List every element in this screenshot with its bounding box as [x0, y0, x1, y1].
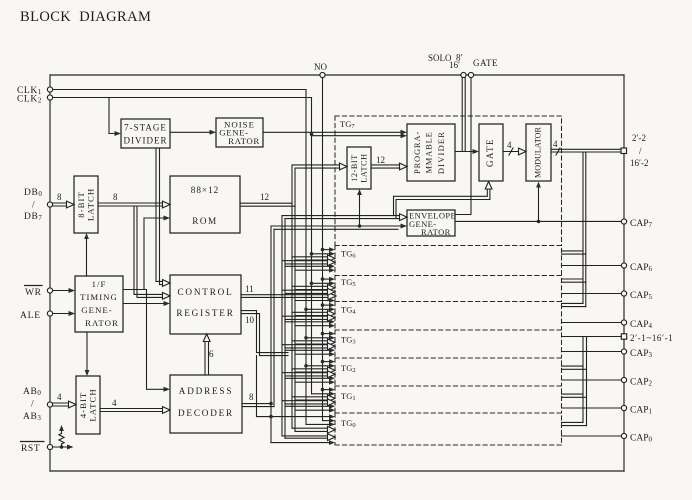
- wire TG6 select feed arrow: [285, 265, 330, 267]
- wire 8-bit latch bus branch down to control register: [134, 206, 163, 297]
- TG3 dashed box: [335, 330, 562, 358]
- node CAP3 terminal: [621, 349, 626, 354]
- svg-text:/: /: [31, 400, 34, 410]
- node CAP4 terminal: [621, 320, 626, 325]
- node 2'-2/16'-2 output terminal: [621, 148, 627, 154]
- wire TG6 output bus: [562, 251, 586, 254]
- wire TG4 data bus arrow: [282, 316, 329, 319]
- svg-text:WR: WR: [25, 288, 42, 298]
- wire 8-bit latch to ROM: [98, 203, 162, 206]
- svg-text:MODULATOR: MODULATOR: [534, 126, 543, 178]
- svg-text:TIMING: TIMING: [80, 292, 118, 302]
- node CAP7 terminal: [621, 219, 626, 224]
- node NO terminal: [320, 72, 325, 77]
- svg-text:88×12: 88×12: [191, 185, 220, 195]
- svg-text:GATE: GATE: [485, 138, 495, 167]
- wire ROM 12 bus out: [240, 203, 295, 206]
- 12-bit latch U-TG7: [347, 147, 371, 189]
- wire CAP6 line: [562, 265, 622, 267]
- svg-text:8-BIT: 8-BIT: [76, 191, 86, 218]
- wire TG5 12 bus arrow: [292, 286, 329, 289]
- wire TG6 12 bus arrow: [292, 257, 329, 260]
- wire TG0 data bus arrow: [282, 436, 329, 438]
- TG1 dashed box: [335, 386, 562, 413]
- wire gate to modulator 4: [503, 151, 519, 153]
- wire TG0 12 bus arrow: [292, 428, 329, 431]
- svg-text:6: 6: [209, 349, 214, 359]
- 8-bit latch block: [74, 176, 98, 233]
- wire TG2 select feed arrow: [285, 377, 330, 379]
- wire envelope input line 1 pair: [282, 216, 285, 439]
- wire TG2 noise feed arrow: [323, 361, 330, 363]
- svg-text:RATOR: RATOR: [85, 318, 119, 328]
- node AB0/AB3 terminal: [47, 402, 52, 407]
- svg-text:NO: NO: [314, 62, 327, 72]
- wire envelope input line 2: [271, 226, 401, 229]
- wire noise output to TG7 divider: [263, 131, 402, 133]
- node SOLO 8'/16' terminal: [461, 72, 466, 77]
- svg-text:CAP4: CAP4: [630, 320, 652, 330]
- svg-text:10: 10: [245, 315, 255, 325]
- svg-text:11: 11: [245, 284, 254, 294]
- wire timing gen to ROM and decoder feed line: [123, 218, 165, 389]
- wire 2'-1 group vertical bus: [583, 337, 587, 426]
- svg-text:12: 12: [260, 192, 269, 202]
- wire ROM bus branch up to 12-bit latch: [292, 165, 341, 206]
- wire TG0 control feed arrow: [271, 442, 330, 444]
- wire TG0 output bus: [562, 422, 587, 425]
- svg-text:8: 8: [249, 392, 254, 402]
- svg-text:4: 4: [507, 140, 512, 150]
- svg-text:AB0: AB0: [23, 387, 42, 397]
- wire address decoder 6 bus up to control register: [205, 340, 209, 375]
- svg-text:BLOCK DIAGRAM: BLOCK DIAGRAM: [20, 9, 151, 25]
- wire CAP0 line: [562, 435, 622, 437]
- wire TG2 data bus arrow: [282, 373, 329, 376]
- wire timing gen up to 8-bit latch: [86, 238, 88, 276]
- wire programmable divider to gate: [455, 151, 473, 153]
- svg-text:AB3: AB3: [23, 412, 42, 422]
- wire TG3 noise feed arrow: [323, 333, 330, 335]
- wire address decoder 8 bus out: [242, 404, 274, 407]
- wire 16'-2 group vertical bus: [583, 152, 586, 307]
- TG5 dashed box: [335, 276, 562, 302]
- wire SOLO pair down: [462, 78, 465, 152]
- wire bottom rail: [50, 470, 624, 472]
- node DB0/DB7 terminal: [47, 202, 52, 207]
- svg-text:GATE: GATE: [473, 58, 498, 68]
- svg-text:16′-2: 16′-2: [630, 158, 648, 168]
- wire divider to noise generator: [170, 131, 211, 133]
- modulator block U-TG7: [526, 124, 551, 181]
- svg-text:RATOR: RATOR: [421, 227, 451, 237]
- svg-text:2′-2: 2′-2: [632, 133, 646, 143]
- wire CAP5 line: [562, 293, 622, 295]
- wire CLK2 to TG7 divider: [312, 135, 403, 137]
- wire 12-bit latch to programmable divider: [371, 165, 401, 168]
- wire GATE pin down to envelope: [455, 78, 471, 215]
- wire envelope branch up to gate bottom: [394, 190, 490, 219]
- wire fan vertical A1: [270, 226, 272, 443]
- wire CLK1 run: [53, 90, 306, 425]
- svg-text:12-BIT: 12-BIT: [350, 154, 359, 182]
- programmable divider U-TG7: [407, 124, 455, 181]
- wire 10 bus branch down to TG0: [256, 356, 258, 417]
- 1/F timing generator block: [75, 276, 123, 332]
- svg-text:CAP2: CAP2: [630, 378, 652, 388]
- wire left rail: [49, 75, 51, 471]
- wire TG6 noise feed arrow: [323, 249, 330, 251]
- svg-text:DIVIDER: DIVIDER: [436, 131, 446, 174]
- wire TG5 output bus: [562, 279, 586, 282]
- svg-text:DECODER: DECODER: [178, 408, 234, 418]
- noise generator block: [216, 118, 263, 147]
- wire TG3 clock feed arrow: [306, 337, 330, 339]
- wire TG6 clock feed arrow: [312, 253, 330, 255]
- node GATE terminal: [468, 72, 473, 77]
- wire TG3 select feed arrow: [285, 349, 330, 351]
- svg-text:4: 4: [57, 392, 62, 402]
- gate block U-TG7: [479, 124, 503, 181]
- wire CLK2 run: [53, 98, 312, 394]
- ROM 88x12 block: [170, 176, 240, 233]
- wire TG4 clock feed arrow: [306, 308, 330, 310]
- wire timing gen to control register: [123, 303, 165, 305]
- wire TG4 noise feed arrow: [323, 304, 330, 306]
- envelope generator U-TG7: [407, 210, 455, 236]
- wire CAP2 line: [562, 379, 622, 381]
- wire WR input: [53, 290, 70, 292]
- wire TG6 control feed arrow: [295, 269, 330, 271]
- svg-text:RST: RST: [21, 444, 40, 454]
- wire TG1 control feed arrow: [295, 409, 330, 411]
- svg-text:RATOR: RATOR: [228, 136, 260, 146]
- svg-text:CAP6: CAP6: [630, 263, 652, 273]
- node CAP2 terminal: [621, 377, 626, 382]
- node CLK2 terminal: [47, 95, 52, 100]
- node CLK1 terminal: [47, 87, 52, 92]
- wire CAP4 line: [562, 322, 622, 324]
- wire TG0 clock feed arrow: [306, 423, 330, 425]
- wire TG1 select feed arrow: [285, 405, 330, 407]
- wire control register 10 bus: [241, 311, 288, 356]
- 4-bit latch block: [76, 376, 100, 434]
- svg-text:GENE-: GENE-: [81, 305, 112, 315]
- wire TG2 12 bus arrow: [292, 369, 329, 372]
- svg-text:8: 8: [57, 192, 62, 202]
- wire TG3 control feed arrow: [295, 353, 330, 355]
- wire TG2 output bus: [562, 366, 587, 369]
- wire TG1 12 bus arrow: [292, 397, 329, 400]
- wire timing gen down to 4-bit latch: [86, 332, 88, 371]
- wire TG4 output bus: [562, 303, 586, 306]
- node WR terminal: [47, 288, 52, 293]
- svg-text:MMABLE: MMABLE: [424, 131, 434, 173]
- wire TG1 noise feed arrow: [323, 389, 330, 391]
- svg-text:DIVIDER: DIVIDER: [124, 136, 168, 146]
- svg-text:CAP0: CAP0: [630, 434, 652, 444]
- svg-text:ALE: ALE: [20, 311, 41, 321]
- svg-text:ADDRESS: ADDRESS: [179, 386, 233, 396]
- wire ALE input: [53, 313, 70, 315]
- svg-text:2′-1~16′-1: 2′-1~16′-1: [630, 333, 673, 343]
- node CAP5 terminal: [621, 291, 626, 296]
- wire CAP1 line: [562, 407, 622, 409]
- wire TG4 control feed arrow: [295, 325, 330, 327]
- wire TG3 data bus arrow: [282, 345, 329, 348]
- svg-text:CAP7: CAP7: [630, 219, 652, 229]
- wire TG6 data bus arrow: [282, 261, 329, 264]
- 7-stage divider block: [121, 119, 170, 148]
- TG2 dashed box: [335, 358, 562, 386]
- svg-text:REGISTER: REGISTER: [176, 308, 234, 318]
- svg-text:DB0: DB0: [24, 188, 43, 198]
- wire TG2 control feed arrow: [295, 381, 330, 383]
- node CAP0 terminal: [621, 433, 626, 438]
- wire TG5 data bus arrow: [282, 290, 329, 293]
- wire TG5 control feed arrow: [295, 300, 330, 302]
- wire TG4 12 bus arrow: [292, 312, 329, 315]
- wire top rail: [50, 74, 624, 76]
- wire AB bus into 4-bit latch: [53, 403, 69, 406]
- svg-text:4: 4: [553, 139, 558, 149]
- wire envelope output to modulator and CAP7: [455, 220, 621, 222]
- svg-text:DB7: DB7: [24, 212, 43, 222]
- svg-text:PROGRA-: PROGRA-: [412, 131, 422, 174]
- svg-text:8: 8: [113, 192, 118, 202]
- svg-text:CLK2: CLK2: [17, 95, 42, 105]
- node RST terminal: [47, 444, 52, 449]
- svg-text:1/F: 1/F: [92, 279, 107, 289]
- wire 7-stage divider bus down to control register: [156, 148, 163, 285]
- svg-text:/: /: [32, 201, 35, 211]
- wire TG5 clock feed arrow: [312, 282, 330, 284]
- wire envelope line tap up to 12-bit latch bottom: [359, 195, 361, 227]
- wire TG0 strobe feed arrow: [257, 416, 330, 418]
- svg-text:LATCH: LATCH: [86, 188, 96, 221]
- wire CLK2 branch to 7-stage divider: [109, 98, 116, 134]
- svg-text:CAP1: CAP1: [630, 406, 652, 416]
- svg-text:LATCH: LATCH: [360, 153, 369, 182]
- svg-text:LATCH: LATCH: [88, 388, 98, 421]
- svg-text:4-BIT: 4-BIT: [78, 392, 88, 419]
- wire fan vertical A2: [273, 229, 275, 406]
- node ALE terminal: [47, 311, 52, 316]
- wire TG1 output bus: [562, 394, 587, 397]
- svg-text:CAP5: CAP5: [630, 291, 652, 301]
- wire TG4 select feed arrow: [285, 321, 330, 323]
- wire 4-bit latch to address decoder: [100, 409, 162, 412]
- wire TG2 clock feed arrow: [306, 365, 330, 367]
- node CAP6 terminal: [621, 263, 626, 268]
- TG4 dashed box: [335, 302, 562, 331]
- wire TG1 clock feed arrow: [312, 393, 330, 395]
- wire TG0 noise feed arrow: [323, 420, 330, 422]
- wire control register 11 bus: [241, 295, 328, 298]
- resistor pull-up on RST: [53, 446, 68, 448]
- svg-text:16′: 16′: [449, 60, 460, 70]
- svg-text:12: 12: [376, 155, 385, 165]
- svg-text:ROM: ROM: [192, 216, 217, 226]
- wire right rail: [623, 75, 625, 471]
- address decoder block: [170, 375, 242, 433]
- wire TG1 data bus arrow: [282, 401, 329, 404]
- TG7 dashed box: [335, 116, 562, 246]
- node junction noise/CLK2: [310, 132, 314, 136]
- wire ROM bus branch down fan: [292, 203, 295, 431]
- node 2'-1~16'-1 output terminal: [621, 334, 626, 339]
- wire modulator output to 2'-2 terminal: [551, 149, 621, 152]
- TG6 dashed box: [335, 246, 562, 276]
- svg-text:CONTROL: CONTROL: [178, 287, 234, 297]
- svg-text:4: 4: [112, 398, 117, 408]
- wire CAP3 line: [562, 351, 622, 353]
- node CAP1 terminal: [621, 405, 626, 410]
- wire 2'-1~16'-1 line: [562, 336, 622, 338]
- svg-text:7-STAGE: 7-STAGE: [124, 123, 167, 133]
- svg-text:CAP3: CAP3: [630, 349, 652, 359]
- wire DB bus into 8-bit latch: [53, 203, 67, 206]
- control register block: [170, 275, 241, 334]
- TG0 dashed box: [335, 413, 562, 445]
- wire TG3 12 bus arrow: [292, 341, 329, 344]
- wire NO vertical: [322, 78, 324, 421]
- wire TG5 noise feed arrow: [323, 278, 330, 280]
